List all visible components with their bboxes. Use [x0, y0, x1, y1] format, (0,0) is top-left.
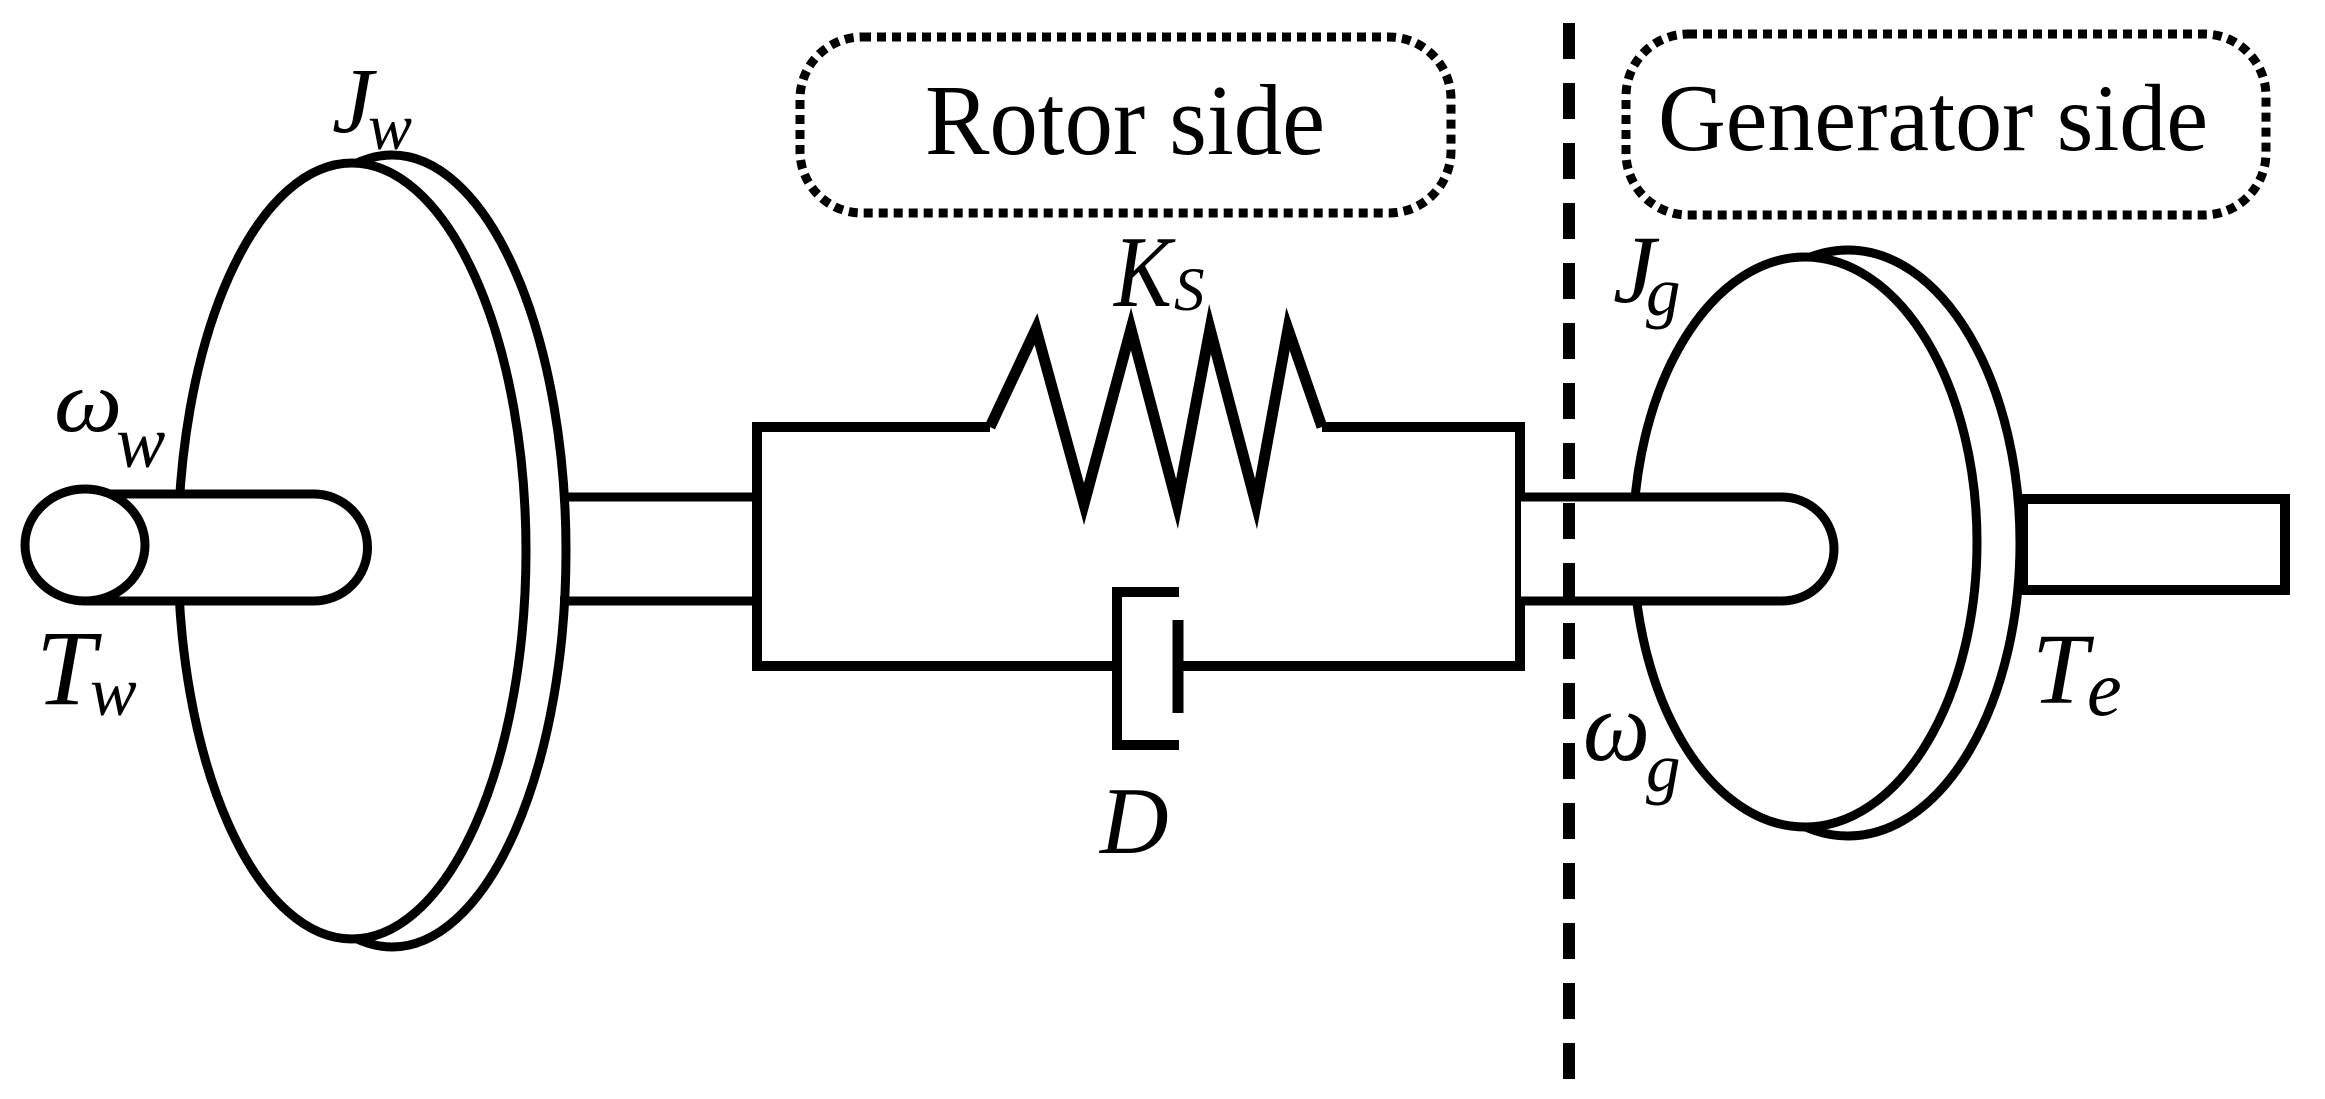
label K_S — [1112, 217, 1176, 329]
label omega_g — [1583, 672, 1650, 783]
generator output shaft (rectangle) — [2023, 499, 2285, 590]
rotor disk front ellipse (inertia J_w face) — [178, 163, 526, 939]
svg-text:T: T — [2032, 613, 2095, 725]
spring K_S (zigzag) — [990, 329, 1322, 504]
svg-text:w: w — [90, 654, 137, 731]
label omega_w — [54, 354, 122, 451]
svg-text:Generator side: Generator side — [1658, 65, 2208, 171]
rotor disk back ellipse (inertia J_w rim) — [218, 155, 566, 947]
rotor input shaft body (stadium) — [85, 494, 368, 601]
svg-text:g: g — [1646, 254, 1681, 330]
Rotor side dotted rounded box — [800, 37, 1451, 213]
svg-text:e: e — [2087, 645, 2122, 732]
gearbox / compliance box outline — [757, 427, 1520, 666]
svg-text:Rotor side: Rotor side — [925, 64, 1325, 176]
shaft box to generator (stadium) — [1521, 497, 1834, 601]
svg-text:g: g — [1646, 730, 1681, 806]
generator disk front ellipse (inertia J_g face) — [1633, 257, 1977, 827]
svg-text:w: w — [116, 402, 165, 484]
svg-text:w: w — [368, 91, 412, 164]
separator dashed line between rotor and generator side — [1563, 23, 1575, 1080]
svg-text:K: K — [1112, 217, 1176, 329]
damper D cup — [1117, 592, 1179, 745]
svg-text:D: D — [1098, 768, 1169, 874]
Generator side dotted rounded box — [1626, 34, 2266, 215]
rotor input shaft end face (ellipse) — [25, 489, 145, 601]
svg-text:S: S — [1174, 257, 1205, 324]
shaft segment disk to box, top line — [560, 493, 757, 502]
svg-text:ω: ω — [1583, 672, 1650, 783]
shaft segment disk to box, bottom line — [560, 597, 757, 606]
svg-text:ω: ω — [54, 354, 122, 451]
damper D piston — [1173, 620, 1184, 713]
generator disk back ellipse (inertia J_g rim) — [1676, 250, 2020, 836]
